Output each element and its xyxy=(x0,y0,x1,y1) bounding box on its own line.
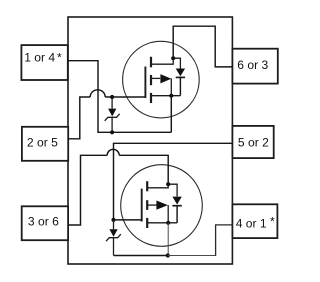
wire G2: pin 5/2 to gate of Q2 xyxy=(114,143,233,220)
svg-text:2 or 5: 2 or 5 xyxy=(27,136,58,150)
drain stub xyxy=(152,58,173,64)
gate bar xyxy=(144,67,146,99)
wire G1: pin 2/5 up to gate line xyxy=(68,97,90,139)
channel segments xyxy=(146,181,148,191)
drain to body diode xyxy=(173,58,180,69)
transistor Q2 MOSFET symbol xyxy=(142,181,177,228)
wire D1: drain to pin 6/3 xyxy=(173,26,232,67)
body stub with arrow xyxy=(152,77,160,79)
node source junction Q1 xyxy=(169,94,173,98)
pin box 2 or 5 xyxy=(22,127,68,161)
body diode D2 xyxy=(172,197,181,223)
gate bar xyxy=(141,189,143,222)
node zener-source junction Q1 xyxy=(110,130,114,134)
channel segments xyxy=(150,57,152,68)
wire zener bottom to source line xyxy=(114,255,168,257)
zener diode Z2 xyxy=(106,220,121,256)
node gate-zener junction Q1 xyxy=(110,95,114,99)
node source junction Q2 xyxy=(166,221,170,225)
body diode D1 xyxy=(176,69,185,96)
svg-text:3 or 6: 3 or 6 xyxy=(28,215,59,229)
package outline xyxy=(68,17,232,264)
drain to body diode xyxy=(168,184,177,196)
pin box 3 or 6 xyxy=(22,206,68,240)
wire gate line to Q1 gate xyxy=(105,96,145,98)
wire S2 riser to pin 4/1 xyxy=(216,225,233,256)
pin box 5 or 2 xyxy=(232,126,273,158)
transistor Q1 MOSFET symbol xyxy=(145,57,180,103)
wire to Q2 drain node xyxy=(119,155,168,184)
svg-text:4 or 1*: 4 or 1* xyxy=(236,214,275,230)
body stub with arrow xyxy=(148,204,157,206)
node drain junction Q1 xyxy=(171,56,175,60)
source stub xyxy=(148,222,177,224)
node source line junction Q2 xyxy=(166,253,170,257)
pin box 4 or 1 xyxy=(232,204,277,238)
wire hop over G2 vertical xyxy=(107,149,119,155)
transistor Q2 circle xyxy=(121,165,203,247)
wire D2: pin 3/6 to drain of Q2 xyxy=(68,155,107,225)
source stub xyxy=(152,95,181,97)
pin box 6 or 3 xyxy=(232,49,277,84)
drain stub xyxy=(148,184,168,188)
wire S1: pin 1/4 to source node xyxy=(68,61,171,133)
svg-text:5 or 2: 5 or 2 xyxy=(238,136,269,150)
wire source Q2 down xyxy=(167,223,169,256)
pin box 1 or 4 xyxy=(21,45,67,80)
transistor Q1 circle xyxy=(123,41,200,118)
node gate-zener junction Q2 xyxy=(111,218,115,222)
svg-text:1 or 4*: 1 or 4* xyxy=(24,51,62,65)
svg-text:6 or 3: 6 or 3 xyxy=(237,58,268,72)
wire source Q1 down xyxy=(170,96,172,133)
wire S2: source line to pin 4/1 xyxy=(168,255,216,257)
wire hop over S1 vertical xyxy=(90,90,105,97)
wire gate lead Q2 xyxy=(114,219,142,221)
zener diode Z1 xyxy=(105,97,120,132)
node drain junction Q2 xyxy=(166,182,170,186)
